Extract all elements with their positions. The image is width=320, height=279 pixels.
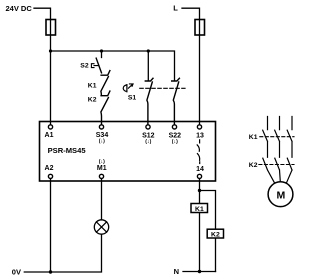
svg-text:K2: K2 [211, 231, 220, 238]
svg-text:K1: K1 [249, 134, 258, 141]
svg-text:K1: K1 [195, 206, 204, 213]
svg-text:(↓): (↓) [99, 159, 105, 165]
svg-text:S1: S1 [128, 95, 137, 102]
svg-text:K1: K1 [88, 83, 97, 90]
svg-text:13: 13 [196, 132, 204, 139]
svg-text:K2: K2 [249, 162, 258, 169]
svg-text:A2: A2 [45, 165, 54, 172]
svg-text:0V: 0V [12, 267, 21, 276]
svg-text:K2: K2 [88, 97, 97, 104]
svg-text:(↓): (↓) [99, 139, 105, 145]
svg-text:M: M [277, 189, 286, 201]
svg-text:L: L [173, 4, 178, 13]
svg-text:PSR-MS45: PSR-MS45 [48, 146, 87, 155]
svg-text:(↓): (↓) [145, 139, 151, 145]
svg-text:M1: M1 [97, 165, 107, 172]
svg-text:14: 14 [196, 166, 204, 173]
svg-text:24V DC: 24V DC [6, 4, 33, 13]
svg-text:S2: S2 [80, 62, 89, 69]
svg-text:A1: A1 [45, 132, 54, 139]
svg-text:N: N [174, 267, 179, 276]
svg-text:(↓): (↓) [172, 139, 178, 145]
